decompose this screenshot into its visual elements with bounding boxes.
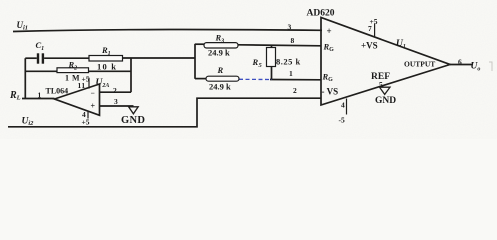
svg-text:+5: +5 <box>82 118 90 127</box>
svg-text:GND: GND <box>121 115 145 126</box>
svg-text:2: 2 <box>293 86 297 95</box>
svg-text:+5: +5 <box>370 17 378 26</box>
svg-text:GND: GND <box>375 96 396 106</box>
svg-text:3: 3 <box>114 97 118 106</box>
svg-text:-5: -5 <box>339 116 345 125</box>
svg-text:TL064: TL064 <box>46 86 69 95</box>
svg-text:+: + <box>91 102 96 111</box>
svg-text:OUTPUT: OUTPUT <box>404 60 435 69</box>
svg-text:5: 5 <box>379 80 383 89</box>
svg-text:- VS: - VS <box>322 87 339 97</box>
svg-text:+5: +5 <box>82 74 90 83</box>
svg-text:10 k: 10 k <box>97 62 117 72</box>
svg-text:8.25 k: 8.25 k <box>276 57 301 67</box>
svg-text:4: 4 <box>341 101 345 110</box>
svg-text:+: + <box>327 26 332 36</box>
svg-text:R: R <box>217 65 224 75</box>
svg-text:−: − <box>91 89 95 98</box>
svg-text:2: 2 <box>113 86 117 95</box>
svg-text:+VS: +VS <box>361 41 378 51</box>
svg-text:24.9 k: 24.9 k <box>209 82 231 92</box>
svg-text:8: 8 <box>291 36 295 45</box>
svg-text:24.9 k: 24.9 k <box>208 48 230 58</box>
svg-text:AD620: AD620 <box>307 9 335 19</box>
svg-text:1: 1 <box>289 69 293 78</box>
svg-text:6: 6 <box>458 58 462 67</box>
svg-text:1: 1 <box>38 91 42 100</box>
svg-text:3: 3 <box>288 23 292 32</box>
